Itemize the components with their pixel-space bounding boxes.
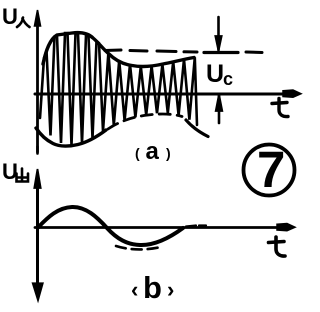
lower dashed envelope of graph a (108, 114, 182, 129)
x axis right arrow of graph a (283, 90, 301, 97)
demodulated sine wave of graph b (38, 207, 183, 245)
lower solid envelope curve of graph a (36, 128, 106, 146)
y axis of graph b (36, 174, 39, 286)
Uc upper vertical measurement line (217, 17, 220, 50)
subscript 'out' glyph of U-out label (17, 169, 29, 182)
x axis right arrow of graph b (277, 224, 295, 231)
svg-text:a: a (146, 138, 160, 165)
subscript 'in' glyph of U-in label (17, 18, 30, 28)
y axis arrow of graph a (35, 10, 41, 26)
svg-text:7: 7 (257, 141, 285, 198)
svg-text:(: ( (135, 145, 140, 161)
upper solid envelope curve of graph a (43, 33, 194, 67)
x axis of graph a (35, 93, 296, 96)
Uc down arrowhead (215, 36, 221, 51)
svg-text:c: c (223, 69, 233, 89)
y axis up arrow of graph b (34, 169, 40, 188)
svg-text:›: › (167, 277, 174, 302)
y axis stub between graphs (36, 147, 39, 154)
svg-text:U: U (2, 4, 18, 29)
x axis of graph b (35, 226, 291, 229)
Uc lower vertical measurement line (218, 95, 221, 123)
svg-text:U: U (206, 60, 224, 88)
svg-text:b: b (143, 270, 162, 305)
small marks after sine on axis of graph b (186, 226, 206, 227)
t label of graph b (269, 237, 286, 256)
y axis of graph a (36, 24, 39, 152)
lower-right envelope tail stroke of graph a (186, 120, 208, 137)
AM carrier oscillation zigzag of graph a (40, 33, 197, 145)
svg-text:‹: ‹ (131, 277, 138, 302)
Uc up arrowhead (216, 94, 223, 111)
t label of graph a (272, 99, 288, 117)
y axis bottom down-arrow blob of graph b (33, 284, 43, 300)
upper dashed level line at Uc height (105, 50, 262, 53)
svg-text:): ) (166, 145, 171, 161)
crossbar of Uc measurement on dashed level (204, 51, 238, 54)
circled 7 figure number: circle (244, 145, 295, 196)
dashed correction under sine trough of graph b (116, 246, 163, 249)
